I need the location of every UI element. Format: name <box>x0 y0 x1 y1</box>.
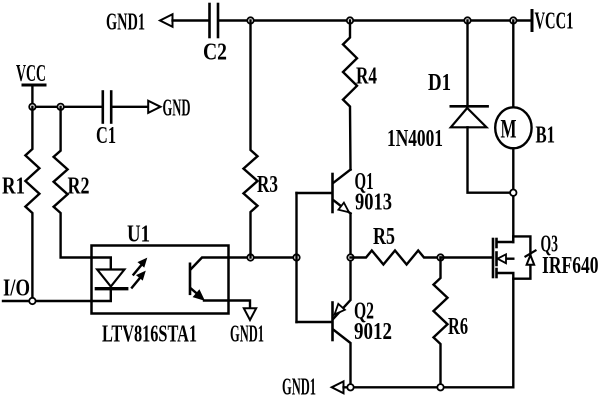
svg-text:9012: 9012 <box>354 319 392 345</box>
Q3 drain lead <box>498 236 514 242</box>
motor B1 circle <box>495 107 531 148</box>
wire motor to drain <box>512 148 514 242</box>
power symbol VCC1 bar <box>531 11 534 31</box>
Q1 collector <box>334 170 351 183</box>
Q3 body arrowhead <box>498 254 507 263</box>
phototransistor emitter <box>191 289 198 295</box>
Q2 emitter arrowhead <box>335 304 345 315</box>
wire VCC node horizontal to C1 <box>32 106 101 108</box>
wire arrow to C2 <box>173 19 209 21</box>
wire I/O input <box>3 300 92 302</box>
svg-text:R1: R1 <box>2 174 25 200</box>
svg-text:R4: R4 <box>356 64 377 90</box>
wire R5 junction to Q3 gate <box>441 256 492 258</box>
svg-text:1N4001: 1N4001 <box>387 126 443 152</box>
Q1 emitter arrowhead <box>338 203 349 213</box>
Q1 emitter down wire <box>349 214 351 258</box>
svg-text:R6: R6 <box>448 314 468 340</box>
diode D1 top wire <box>466 21 468 106</box>
phototransistor collector <box>191 258 229 270</box>
Q3 channel bar middle <box>495 253 498 266</box>
capacitor C1 <box>103 92 111 123</box>
resistor R1 <box>25 107 39 301</box>
Q2 emitter wire from junction <box>334 258 351 319</box>
capacitor C2 <box>210 4 219 37</box>
svg-text:GND1: GND1 <box>106 10 145 36</box>
junction base tie <box>293 254 299 260</box>
junction top rail / R3 <box>247 17 253 23</box>
Q3 channel bar top <box>495 239 498 247</box>
wire U1 pin3 emitter out <box>204 301 250 309</box>
MOSFET Q3 gate bar <box>492 239 495 277</box>
svg-text:B1: B1 <box>536 123 556 149</box>
junction D1 / motor <box>510 190 516 196</box>
svg-text:GND1: GND1 <box>282 375 316 400</box>
junction emitters / R5 <box>347 254 353 260</box>
wire VCC bar down <box>31 85 33 107</box>
svg-text:D1: D1 <box>428 70 451 96</box>
D1 triangle <box>451 108 487 127</box>
junction bottom rail / R6 <box>437 384 443 390</box>
Q3 body lead <box>505 258 513 260</box>
svg-text:9013: 9013 <box>355 190 392 216</box>
svg-text:VCC: VCC <box>16 61 46 87</box>
wire base tie vertical <box>295 193 297 322</box>
junction VCC / R1 <box>29 104 35 110</box>
Q1 emitter <box>334 201 351 214</box>
wire C1 to GND arrow <box>113 106 149 108</box>
Q3 body diode triangle <box>527 255 535 265</box>
ground arrow GND1 under U1 <box>244 308 256 320</box>
D1 bottom wire <box>468 127 514 192</box>
resistor R4 <box>343 21 357 170</box>
transistor Q2 base bar <box>331 303 334 341</box>
light arrow upper <box>134 259 147 275</box>
resistor R6 <box>434 258 448 388</box>
junction R5 / R6 / gate <box>437 254 443 260</box>
svg-text:IRF640: IRF640 <box>542 253 599 279</box>
wire rail to motor <box>512 21 514 108</box>
junction R3 bottom <box>247 254 253 260</box>
power symbol VCC bar <box>23 84 45 87</box>
svg-text:R3: R3 <box>257 172 278 198</box>
junction top rail / R4 <box>347 17 353 23</box>
svg-text:U1: U1 <box>127 222 150 248</box>
LED cathode bar <box>96 287 126 290</box>
resistor R5 <box>351 251 442 265</box>
svg-text:GND1: GND1 <box>230 322 264 348</box>
Q3 source lead <box>498 273 514 387</box>
ground arrow GND1 top-left <box>160 14 173 27</box>
wire top rail C2 to VCC1 <box>219 19 532 21</box>
wire U1 pin1 anode <box>92 258 111 270</box>
resistor R3 <box>244 21 258 258</box>
transistor Q1 base bar <box>331 174 334 212</box>
Q2 collector <box>334 330 351 387</box>
junction top rail / D1 <box>464 17 470 23</box>
Q3 channel bar bottom <box>495 269 498 277</box>
wire U1 pin2 cathode <box>92 290 111 301</box>
svg-text:GND: GND <box>163 96 191 122</box>
Q2 base wire <box>297 321 332 323</box>
junction I/O / R1 <box>29 298 35 304</box>
svg-text:C2: C2 <box>203 40 227 66</box>
phototransistor base bar in U1 <box>189 264 192 294</box>
svg-text:I/O: I/O <box>3 276 30 302</box>
junction bottom rail / Q2 collector <box>347 384 353 390</box>
svg-text:R5: R5 <box>373 224 395 250</box>
optocoupler U1 box <box>92 246 229 314</box>
wire U1 pin4 to base tie <box>229 256 297 258</box>
resistor R2 <box>54 107 92 258</box>
Q3 body diode bracket <box>513 236 530 278</box>
Q1 base wire <box>297 192 332 194</box>
phototransistor emitter arrowhead <box>194 290 205 300</box>
D1 cathode bar <box>451 105 488 108</box>
junction VCC / R2 <box>57 104 63 110</box>
Q3 body diode cathode slash <box>526 251 536 257</box>
junction top rail / motor B1 <box>510 17 516 23</box>
svg-text:R2: R2 <box>68 174 90 200</box>
wire bottom rail <box>344 386 514 388</box>
svg-text:VCC1: VCC1 <box>535 9 574 35</box>
light arrow lower <box>132 272 145 288</box>
svg-text:LTV816STA1: LTV816STA1 <box>102 322 197 348</box>
LED diode in U1 <box>97 270 124 287</box>
svg-text:C1: C1 <box>96 123 116 149</box>
ground arrow GND1 bottom <box>332 381 344 393</box>
ground arrow GND <box>148 101 160 113</box>
svg-text:M: M <box>501 115 517 144</box>
